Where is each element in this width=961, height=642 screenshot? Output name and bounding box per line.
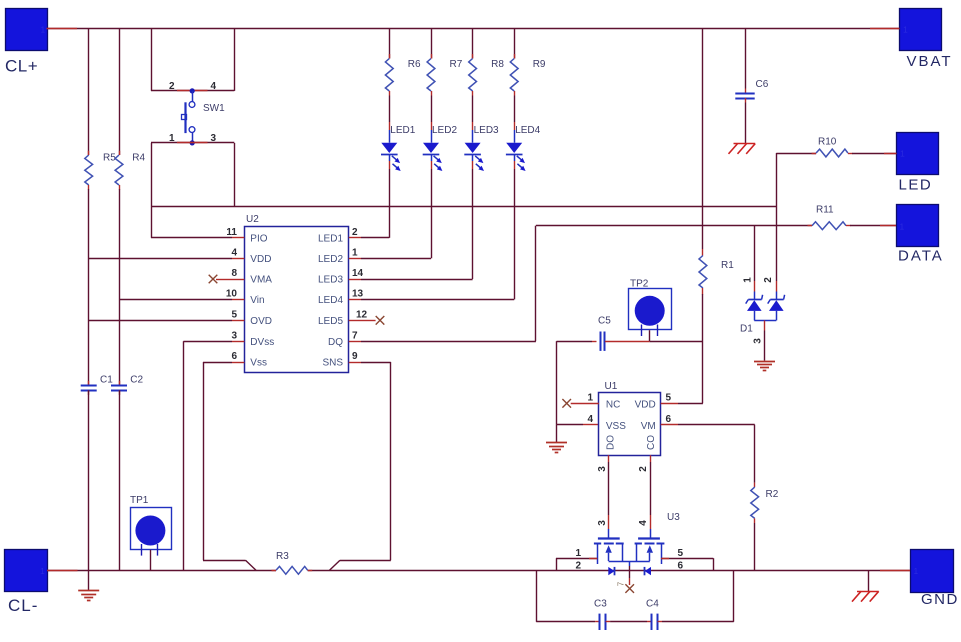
svg-text:R6: R6 [408, 59, 421, 70]
svg-text:VDD: VDD [250, 254, 271, 265]
wire SNS loop bevel to rail [330, 560, 341, 570]
wire C1 to bottom rail [88, 390, 90, 570]
svg-text:5: 5 [678, 548, 684, 559]
capacitor C3 [599, 614, 601, 630]
svg-text:Vss: Vss [250, 358, 267, 369]
wire SW1 box right vertical [234, 29, 236, 91]
U3 pin 1 wire [556, 558, 597, 560]
svg-text:1: 1 [352, 248, 358, 259]
wire LED3 row to U2 [361, 279, 473, 281]
wire R8 to LED3 [472, 96, 474, 123]
svg-text:LED4: LED4 [515, 125, 540, 136]
wire D1 pin1 vertical from DATA net [754, 226, 756, 281]
svg-text:Vin: Vin [250, 295, 264, 306]
wire R10 to LED port [852, 153, 897, 155]
wire C6 column from bus [745, 29, 747, 89]
U2 pin 13 LED4 stub [349, 299, 361, 301]
svg-text:SNS: SNS [322, 358, 343, 369]
svg-text:12: 12 [356, 310, 368, 321]
U2 pin 14 LED3 stub [349, 279, 361, 281]
port CL+ [6, 9, 48, 51]
U1 pin 2 wire down to U3 gate [650, 455, 652, 462]
svg-text:OVD: OVD [250, 316, 272, 327]
TP2 pin wire [649, 330, 651, 341]
svg-text:LED5: LED5 [318, 316, 343, 327]
port CL- [5, 550, 48, 592]
svg-text:CL-: CL- [8, 596, 38, 615]
wire R10 line from vertical [776, 153, 816, 155]
svg-text:1: 1 [742, 277, 753, 283]
svg-text:LED: LED [899, 177, 933, 194]
bottom rail wire (R3 to GND) [308, 570, 910, 572]
wire R4 column to C2 [119, 189, 121, 385]
U2 pin 12 LED5 stub [349, 320, 361, 322]
wire LED4 row to U2 [361, 299, 514, 301]
D1 pin 3 wire to ground [764, 320, 766, 330]
U3 right FET gate [650, 529, 652, 539]
svg-text:1: 1 [914, 566, 919, 576]
U1 VM pin 6 stub [661, 424, 678, 426]
resistor R11 [812, 222, 846, 230]
wire R9 to LED4 [514, 96, 516, 123]
svg-text:3: 3 [752, 338, 763, 344]
wire LED1 row to U2 [361, 237, 389, 239]
U2 pin 6 Vss stub [232, 362, 244, 364]
svg-text:VDD: VDD [635, 400, 656, 411]
svg-text:C3: C3 [594, 599, 607, 610]
svg-text:5: 5 [666, 393, 672, 404]
svg-text:6: 6 [666, 414, 672, 425]
wire R2 to rail [754, 523, 756, 570]
diode D1 zener 1 [754, 292, 756, 300]
svg-text:11: 11 [226, 227, 237, 238]
svg-text:CO: CO [646, 435, 657, 450]
U2 pin 2 LED1 stub [349, 237, 361, 239]
svg-text:1: 1 [587, 393, 593, 404]
wire SNS loop bottom horizontal [340, 560, 391, 562]
capacitor C2 [111, 385, 127, 387]
capacitor C6 [735, 93, 754, 95]
wire U1 VSS horizontal [557, 424, 584, 426]
svg-text:C2: C2 [130, 375, 143, 386]
svg-text:NC: NC [606, 400, 620, 411]
port VBAT [900, 9, 942, 51]
svg-text:3: 3 [597, 520, 608, 526]
svg-text:4: 4 [587, 414, 593, 425]
U3 right body diode [645, 567, 651, 575]
wire between C3 and C4 [610, 621, 647, 623]
U3 right FET source lead [661, 544, 663, 564]
wire LED net vertical (R10/D1) [776, 153, 778, 281]
wire OVD line to R5 column [89, 320, 232, 322]
resistor R6 [385, 59, 393, 92]
svg-text:TP1: TP1 [130, 495, 149, 506]
port LED [897, 133, 939, 175]
U1 VDD pin 5 stub [661, 403, 678, 405]
svg-text:3: 3 [597, 466, 608, 472]
svg-text:GND: GND [921, 591, 959, 608]
wire R7 to LED2 [431, 96, 433, 123]
U1 pin 3 wire down to U3 gate [608, 455, 610, 462]
svg-text:2: 2 [638, 466, 649, 472]
wire LED net long horizontal [151, 206, 776, 208]
svg-text:1: 1 [900, 149, 905, 159]
top power bus wire (CL+ / VBAT net) [47, 28, 900, 30]
svg-text:DATA: DATA [898, 248, 944, 265]
U3 left FET gate [608, 529, 610, 539]
port GND [911, 550, 954, 593]
svg-text:2: 2 [575, 561, 581, 572]
svg-text:R9: R9 [533, 59, 546, 70]
resistor R1 [699, 256, 707, 289]
wire SW1 box left vertical [151, 29, 153, 91]
pin wire CL- [47, 570, 78, 572]
svg-text:VMA: VMA [250, 275, 272, 286]
wire LED4 down to U2 row [514, 169, 516, 299]
svg-text:5: 5 [231, 310, 237, 321]
capacitor C5 [600, 332, 602, 351]
U3 left FET source lead [597, 544, 599, 564]
wire R1 down to U1 VDD [702, 294, 704, 403]
wire DVss line [183, 341, 232, 343]
wire R1 column from bus [702, 29, 704, 249]
svg-text:2: 2 [169, 81, 175, 92]
no-connect X at U1 NC pin 1 [562, 399, 571, 408]
svg-text:14: 14 [352, 268, 364, 279]
wire C5 to TP2/R1 vertical [650, 341, 703, 343]
svg-text:LED1: LED1 [390, 125, 415, 136]
U3 pin 5-6 bracket [713, 558, 715, 570]
svg-text:C5: C5 [598, 316, 611, 327]
svg-text:7: 7 [617, 581, 626, 586]
D1 common anode bar [754, 320, 776, 322]
svg-text:DO: DO [606, 435, 617, 450]
svg-text:SW1: SW1 [203, 103, 225, 114]
svg-text:2: 2 [352, 227, 358, 238]
wire VSS branch to ground [556, 425, 558, 443]
svg-text:C1: C1 [100, 375, 113, 386]
wire R4 column upper [119, 29, 121, 155]
wire R2 column [754, 425, 756, 483]
svg-text:U3: U3 [667, 512, 680, 523]
resistor R2 [751, 487, 759, 518]
svg-text:4: 4 [231, 248, 237, 259]
port DATA [897, 205, 939, 247]
svg-text:1: 1 [900, 222, 905, 232]
wire DVss vertical to rail [183, 341, 185, 570]
C3/C4 loop bottom wire left [536, 621, 595, 623]
svg-text:R1: R1 [721, 260, 734, 271]
wire DQ line to DATA net corner [361, 341, 536, 343]
wire Vss line [203, 362, 232, 364]
LED LED2 [431, 130, 433, 143]
U2 pin 7 DQ stub [349, 341, 361, 343]
wire R5 column to C1 [88, 189, 90, 385]
wire R6 column from bus [389, 29, 391, 59]
svg-text:R3: R3 [276, 551, 289, 562]
wire SNS line [361, 362, 391, 364]
wire Vss loop bevel to rail [246, 560, 257, 570]
wire stub below rail to ground [88, 570, 90, 591]
wire DATA net vertical [535, 226, 537, 342]
svg-text:13: 13 [352, 289, 364, 300]
wire right vertical SW to LED net [234, 143, 236, 206]
U3 pin 5 wire [661, 558, 713, 560]
U3 pin 1-2 bracket [556, 558, 558, 570]
wire left vertical SW to PIO [151, 143, 153, 238]
svg-text:9: 9 [352, 351, 358, 362]
wire R9 column from bus [514, 29, 516, 59]
wire PIO horizontal [151, 237, 232, 239]
svg-text:DQ: DQ [328, 337, 343, 348]
svg-text:CL+: CL+ [5, 57, 38, 76]
wire C5 branch vertical down to U1 VSS [556, 341, 558, 424]
svg-text:LED3: LED3 [318, 275, 343, 286]
svg-text:U1: U1 [605, 381, 618, 392]
wire U1 VDD horizontal [678, 403, 703, 405]
svg-text:LED2: LED2 [432, 125, 457, 136]
LED LED3 [472, 130, 474, 143]
wire R7 column from bus [431, 29, 433, 59]
U2 pin 3 DVss stub [232, 341, 244, 343]
C3/C4 loop left vertical [536, 570, 538, 622]
wire SW1 pins 2-4 horizontal [151, 90, 234, 92]
pin wire VBAT [870, 28, 900, 30]
svg-text:R10: R10 [818, 137, 837, 148]
svg-text:LED3: LED3 [474, 125, 499, 136]
wire U1 VM to R2 column [678, 424, 755, 426]
ground earth symbol at U1 VSS [546, 442, 567, 444]
wire SW1 pins 1-3 horizontal [151, 142, 234, 144]
wire Vin line to R4 column [119, 299, 232, 301]
wire C2 to bottom rail [119, 390, 121, 570]
LED LED4 [514, 130, 516, 143]
svg-text:PIO: PIO [250, 234, 267, 245]
resistor R9 [510, 59, 518, 92]
TP1 pin wire to rail [150, 550, 152, 571]
svg-text:R7: R7 [450, 59, 463, 70]
svg-text:1: 1 [41, 25, 46, 35]
U3 left FET arrow [608, 553, 610, 561]
wire LED1 down to U2 row [389, 169, 391, 238]
U2 pin 9 SNS stub [349, 362, 361, 364]
chassis ground at C6 [734, 143, 756, 145]
LED LED1 [389, 130, 391, 143]
IC U2 box [245, 227, 349, 373]
U3 left FET drain lead [622, 544, 624, 561]
svg-text:D1: D1 [740, 324, 753, 335]
bottom rail wire (CL- to R3) [47, 570, 276, 572]
svg-text:1: 1 [903, 25, 908, 35]
pin wire GND [880, 570, 910, 572]
svg-text:C4: C4 [646, 599, 659, 610]
ground earth symbol at D1 [754, 361, 775, 363]
U3 pin 7 drop with no-connect [629, 561, 631, 566]
IC U1 box [599, 393, 661, 456]
resistor R8 [469, 59, 477, 92]
wire SNS loop vertical [390, 362, 392, 560]
wire R5 column upper [88, 29, 90, 155]
U3 left body diode [608, 567, 614, 575]
svg-text:2: 2 [763, 277, 774, 283]
svg-text:LED4: LED4 [318, 295, 343, 306]
wire Vss loop bottom horizontal [203, 560, 246, 562]
svg-text:10: 10 [226, 289, 238, 300]
svg-text:R2: R2 [766, 489, 779, 500]
no-connect X at U2 LED5 pin 12 [361, 320, 376, 322]
svg-text:6: 6 [231, 351, 237, 362]
capacitor C4 [651, 614, 653, 630]
resistor R4 [115, 155, 123, 185]
svg-text:6: 6 [678, 561, 684, 572]
U2 pin 1 LED2 stub [349, 258, 361, 260]
svg-text:R11: R11 [816, 205, 834, 216]
svg-text:LED2: LED2 [318, 254, 343, 265]
wire LED2 down to U2 row [431, 169, 433, 258]
U3 common drain bar [609, 561, 650, 563]
U2 pin 5 OVD stub [232, 320, 244, 322]
pin wire CL+ [47, 28, 78, 30]
resistor R10 [816, 149, 848, 157]
U2 pin 4 VDD stub [232, 258, 244, 260]
svg-text:C6: C6 [756, 79, 769, 90]
chassis ground near GND port [868, 570, 870, 591]
diode D1 zener 2 [776, 292, 778, 300]
wire C6 to chassis ground [745, 103, 747, 144]
svg-text:R5: R5 [103, 153, 116, 164]
svg-text:4: 4 [638, 520, 649, 526]
svg-text:VSS: VSS [606, 421, 626, 432]
svg-text:R4: R4 [132, 153, 145, 164]
svg-text:VBAT: VBAT [907, 53, 953, 70]
svg-text:LED1: LED1 [318, 234, 343, 245]
wire R6 to LED1 [389, 96, 391, 123]
U2 pin 10 Vin stub [232, 299, 244, 301]
svg-text:VM: VM [641, 421, 656, 432]
svg-text:3: 3 [231, 330, 237, 341]
svg-text:1: 1 [40, 566, 45, 576]
svg-text:8: 8 [231, 268, 237, 279]
resistor R7 [427, 59, 435, 92]
resistor R5 [85, 155, 93, 185]
U3 right FET arrow [649, 553, 651, 561]
wire R8 column from bus [472, 29, 474, 59]
svg-text:U2: U2 [246, 214, 259, 225]
C3/C4 loop right vertical [733, 570, 735, 622]
svg-text:R8: R8 [491, 59, 504, 70]
U2 pin 11 PIO stub [232, 237, 244, 239]
wire LED3 down to U2 row [472, 169, 474, 279]
wire DQ/C5 net horizontal left [557, 341, 593, 343]
svg-text:4: 4 [211, 81, 217, 92]
wire DATA net horizontal to R11 [536, 225, 812, 227]
wire Vss loop vertical [203, 362, 205, 560]
svg-text:7: 7 [352, 330, 358, 341]
ground earth symbol at C1 column [78, 590, 99, 592]
resistor R3 in bottom rail [276, 566, 308, 574]
wire R11 to DATA port [850, 225, 896, 227]
wire VDD line to R5 column [89, 258, 232, 260]
U2 pin 8 VMA stub [232, 279, 244, 281]
C3/C4 loop bottom wire right [662, 621, 734, 623]
svg-text:DVss: DVss [250, 337, 274, 348]
capacitor C1 [81, 385, 97, 387]
no-connect X at U2 VMA pin 8 [209, 275, 218, 284]
wire LED2 row to U2 [361, 258, 431, 260]
svg-text:1: 1 [575, 548, 581, 559]
U3 right FET drain lead [636, 544, 638, 561]
